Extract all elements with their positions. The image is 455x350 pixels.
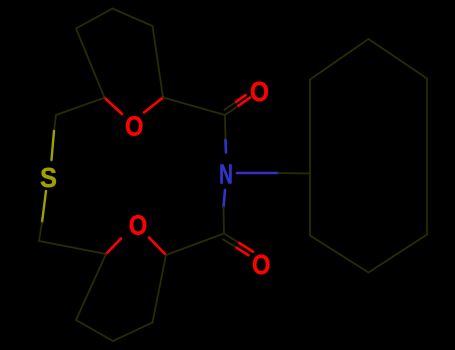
cyclohexyl ring: bond BL-TL left side: [309, 80, 311, 236]
cyclohexyl ring: bond BR-B: [369, 235, 428, 273]
top C=O line 1 carbon half: [225, 106, 239, 115]
bottom C=O line 1 oxygen half: [239, 243, 253, 252]
oxane ring top: bond O1-C2: [144, 98, 163, 113]
bond S-CH2b carbon half: [39, 223, 42, 242]
oxane ring bottom: bond apex'-C3': [113, 323, 153, 342]
oxane ring top: bond C4-apex: [76, 9, 113, 29]
cyclohexyl ring: bond T-TR: [369, 39, 428, 79]
oxane ring bottom: bond C3'-C2': [153, 255, 167, 323]
bond CH2a-S sulfur half: [52, 131, 55, 160]
amide N to bottom carbonyl: carbon half: [223, 207, 226, 234]
oxane ring top: bond C5-C4: [76, 29, 105, 98]
bottom C=O line 2 oxygen half: [237, 248, 249, 255]
top C=O line 1 oxygen half: [239, 98, 251, 106]
oxane ring top: bond O1-C5: [105, 98, 123, 114]
oxane ring bottom: bond C4'-apex': [76, 320, 113, 341]
oxane ring top: bond C3-C2: [153, 26, 164, 98]
bond N-phenyl: carbon half: [278, 172, 309, 175]
bond CH2b-C5'(bottom ring): [39, 241, 106, 254]
bond CH2a-S carbon half: [54, 115, 56, 131]
amide N to bottom carbonyl: nitrogen half: [224, 190, 226, 207]
oxane ring top: bond apex-C3: [113, 9, 153, 27]
svg-text:O: O: [252, 248, 271, 280]
oxane ring bottom: bond C5'-C4': [76, 254, 106, 320]
amide N to top carbonyl: nitrogen half: [224, 140, 227, 153]
bond C2'(bottom ring) to carbonyl C2b: [166, 234, 224, 256]
top C=O line 2 carbon half: [224, 102, 236, 110]
svg-text:O: O: [129, 209, 148, 241]
top C=O line 2 oxygen half: [236, 95, 246, 102]
bond C2(top ring) to carbonyl C1: [163, 98, 225, 116]
bond N-phenyl: nitrogen half: [237, 172, 278, 175]
amide N to top carbonyl: carbon half: [224, 115, 227, 140]
bond CH2a-C5(top ring): [56, 98, 105, 115]
bond S-CH2b sulfur half: [42, 191, 46, 223]
svg-text:O: O: [250, 76, 269, 108]
svg-text:O: O: [125, 110, 144, 142]
svg-text:S: S: [40, 162, 57, 193]
oxane ring bottom: bond O1'-C2': [149, 238, 166, 256]
cyclohexyl ring: bond TL-T: [310, 39, 369, 80]
oxane ring bottom: bond O1'-C5': [106, 239, 121, 255]
svg-text:N: N: [219, 159, 233, 191]
cyclohexyl ring: bond TR-BR right side: [426, 79, 428, 235]
bottom C=O line 2 carbon half: [223, 239, 237, 248]
cyclohexyl ring: bond B-BL: [310, 236, 369, 273]
bottom C=O line 1 carbon half: [224, 234, 239, 243]
